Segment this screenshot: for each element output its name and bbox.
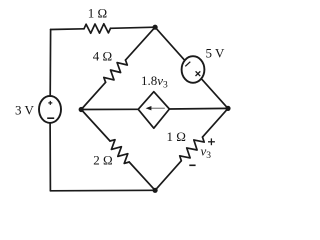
wire top-right horizontal (111, 27, 156, 28)
arrow head of dependent current source (146, 106, 152, 110)
svg-text:v3: v3 (201, 144, 212, 162)
voltage source 5V circle (182, 56, 205, 83)
plus sign inside 3V (48, 101, 52, 105)
minus sign inside 5V (rotated) (185, 62, 190, 67)
wire diag 1ohm to right node (203, 108, 229, 137)
dependent source diamond 1.8v3 (138, 92, 169, 129)
wire diag 2ohm to bottom node (129, 162, 155, 190)
node bottom (153, 188, 158, 193)
wire diag left node to 2ohm (81, 110, 110, 142)
label plus of v3 (208, 138, 215, 145)
svg-text:2 Ω: 2 Ω (93, 152, 112, 167)
wire diag from 5V source to right node (201, 79, 228, 109)
svg-text:3 V: 3 V (15, 103, 35, 118)
svg-text:1 Ω: 1 Ω (88, 5, 107, 20)
svg-text:1 Ω: 1 Ω (166, 129, 185, 144)
wire middle right (169, 107, 228, 110)
svg-text:1.8v3: 1.8v3 (141, 73, 168, 91)
node left (79, 107, 84, 112)
wire diag lower-left of 4ohm (81, 82, 105, 109)
wire diag upper-right of 4ohm (126, 27, 156, 60)
node top (153, 25, 158, 30)
voltage source 3V (39, 96, 61, 123)
node right (225, 106, 230, 111)
svg-text:5 V: 5 V (206, 46, 226, 61)
resistor R 1ohm right (180, 137, 205, 161)
resistor R 4ohm (104, 60, 128, 82)
wire top-left horizontal (51, 28, 84, 31)
resistor R 2ohm (110, 140, 129, 164)
wire middle left (81, 108, 138, 110)
wire left vertical lower (49, 123, 51, 191)
minus sign inside 3V (47, 117, 54, 119)
resistor R 1ohm top (84, 24, 111, 34)
wire diag bottom node to 1ohm (155, 161, 181, 191)
wire bottom horizontal (50, 189, 155, 192)
label minus of v3 (189, 164, 195, 166)
arrow shaft of dependent current source (150, 107, 165, 109)
wire left vertical upper (49, 30, 51, 97)
plus sign inside 5V (rotated x shape) (196, 71, 201, 76)
svg-text:4 Ω: 4 Ω (93, 48, 112, 63)
wire diag from top node to 5V source (155, 27, 185, 60)
